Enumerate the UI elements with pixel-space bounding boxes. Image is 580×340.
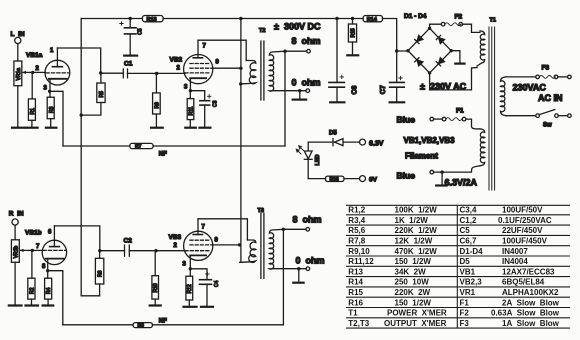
terminal AC neutral — [568, 114, 572, 118]
terminal 8ohm T3 — [306, 228, 310, 232]
node cathode VB2 — [189, 89, 192, 92]
resistor R6 — [95, 258, 103, 284]
ground R11 — [185, 127, 196, 129]
node screen VB3 B+ junction — [238, 243, 241, 246]
node L IN label — [11, 31, 25, 38]
node grid VB3 junction — [154, 249, 157, 252]
svg-text:D5: D5 — [460, 257, 471, 266]
svg-text:OUTPUT X'MER: OUTPUT X'MER — [384, 319, 447, 328]
wire node B to C2 — [100, 250, 125, 252]
wire bridge bottom to T1 secondary bottom — [430, 68, 477, 90]
svg-text:R10: R10 — [153, 283, 159, 292]
node screen B+ junction — [239, 67, 242, 70]
wire R3 to ground — [50, 119, 52, 127]
svg-text:R8: R8 — [138, 323, 145, 329]
node R5 B+ junction — [80, 113, 83, 116]
svg-text:R4: R4 — [46, 287, 52, 294]
table row R11,12 — [348, 257, 528, 266]
wire C6 top — [336, 19, 338, 83]
svg-text:VB1a: VB1a — [26, 52, 43, 59]
potentiometer VR1a — [14, 61, 22, 86]
wire R2 to ground — [31, 299, 33, 305]
node B plate VB1b junction — [98, 249, 101, 252]
transformer T1 core — [489, 27, 495, 190]
resistor R3 — [47, 97, 55, 119]
label VB1,VB2,VB3 — [404, 136, 456, 145]
svg-text:0.1UF/250VAC: 0.1UF/250VAC — [498, 216, 552, 225]
capacitor C7 — [380, 76, 404, 94]
wire R11 to ground — [189, 120, 191, 127]
resistor R2 — [28, 278, 36, 299]
tube VB2 plate — [193, 40, 202, 58]
LED indicator — [296, 142, 321, 179]
tube VB1b cathode — [46, 259, 64, 271]
svg-text:F3: F3 — [542, 65, 550, 72]
pin 2 label VB2 — [177, 66, 181, 72]
wire LED to R16 — [308, 178, 325, 180]
transformer T1 mains primary — [501, 77, 507, 116]
resistor R15 — [348, 24, 356, 42]
label NF top — [159, 152, 167, 158]
resistor R8 feedback — [133, 323, 152, 329]
table row T1 — [348, 309, 559, 318]
tube VB2 grid1 — [185, 72, 209, 74]
wiper arrow VR1b — [20, 249, 30, 252]
table row R3,4 — [348, 216, 552, 225]
label F2 — [455, 14, 463, 21]
node R IN label — [9, 211, 24, 218]
wire B+ line output tubes — [240, 19, 242, 263]
wire C7 top — [396, 51, 398, 82]
ground VR1b — [9, 304, 22, 306]
tube VB2 grid3 — [190, 63, 209, 65]
svg-text:C6,7: C6,7 — [460, 237, 477, 246]
svg-text:VR1: VR1 — [460, 288, 476, 297]
svg-text:34K 2W: 34K 2W — [395, 267, 427, 276]
svg-text:R1,2: R1,2 — [348, 206, 365, 215]
node T3 0ohm ground tap — [297, 267, 300, 270]
svg-text:± 300V DC: ± 300V DC — [274, 22, 321, 32]
node bridge bottom corner — [428, 71, 431, 74]
wire cathode to C4 — [190, 269, 207, 280]
tube VB3 grid3 — [190, 239, 209, 241]
wire C3 to ground — [204, 105, 206, 127]
wire node to R9 — [155, 73, 157, 93]
svg-text:470K 1/2W: 470K 1/2W — [395, 247, 438, 256]
svg-text:Filament: Filament — [405, 152, 438, 161]
terminal filament bottom — [430, 170, 434, 174]
label Sw — [543, 123, 552, 129]
wire wiper to VB1a grid — [32, 71, 46, 73]
resistor R12 — [186, 276, 193, 300]
potentiometer VR1b — [11, 240, 19, 262]
svg-text:F2: F2 — [460, 309, 470, 318]
ground R15 — [347, 54, 358, 56]
wire B+ top rail left — [81, 18, 142, 20]
tube VB3 plate — [193, 219, 202, 235]
pin 2 label VB1a — [36, 66, 40, 72]
wire R1 top — [31, 72, 33, 99]
svg-text:8 ohm: 8 ohm — [293, 215, 322, 225]
tube VB1a envelope — [45, 60, 70, 85]
svg-text:T1: T1 — [490, 18, 496, 24]
svg-text:R14: R14 — [367, 17, 378, 23]
svg-text:D1-D4: D1-D4 — [460, 247, 484, 256]
node T2 8ohm tap — [283, 50, 286, 53]
wire C4 to ground — [206, 284, 208, 306]
wire F1 to filament winding — [466, 119, 480, 129]
svg-text:T2: T2 — [259, 28, 265, 34]
label Blue bottom — [397, 171, 416, 181]
svg-text:T1: T1 — [348, 309, 358, 318]
label F1 — [456, 108, 464, 115]
tube VB1b label — [25, 230, 42, 237]
node A plate VB1a junction — [99, 71, 102, 74]
tube VB3 grid2 screen — [190, 244, 213, 246]
ground R10 — [150, 304, 161, 306]
terminal 6.3V — [360, 139, 366, 145]
fuse F3 — [536, 75, 558, 79]
ground R2 — [26, 304, 39, 306]
transformer T2 label — [259, 28, 265, 34]
ground VR1a — [12, 127, 25, 129]
tube VB1b grid — [43, 249, 66, 251]
wire node B to R6 — [99, 251, 101, 259]
wire T1 primary top to F3 — [506, 76, 536, 78]
label 0 ohm bottom — [296, 256, 325, 266]
wire cathode to R3 — [49, 91, 51, 97]
svg-text:F1: F1 — [456, 108, 464, 115]
wire node A to C1 — [101, 72, 124, 74]
wiper arrow VR1a — [22, 71, 32, 74]
svg-text:R1: R1 — [30, 108, 36, 115]
wire filament tap to ground — [441, 172, 443, 185]
svg-text:1K 1/2W: 1K 1/2W — [395, 216, 429, 225]
ground R4 — [43, 304, 54, 306]
wire C2 to grid VB3 — [129, 250, 185, 252]
node C6 rail — [335, 17, 338, 20]
terminal 0ohm T3 — [306, 267, 310, 271]
ground R3 — [46, 127, 57, 129]
svg-text:6.3V: 6.3V — [369, 141, 384, 148]
tube VB1b envelope — [42, 240, 66, 264]
wire R10 to ground — [154, 299, 156, 305]
svg-text:R7: R7 — [135, 144, 142, 150]
wire R16 to 0V terminal — [344, 178, 360, 180]
wire switch to AC terminal — [558, 115, 567, 117]
transformer T2 core — [261, 41, 264, 100]
svg-text:220K 1/2W: 220K 1/2W — [395, 226, 438, 235]
ground filament — [436, 184, 446, 186]
svg-text:C1,2: C1,2 — [460, 216, 477, 225]
resistor R13 — [142, 16, 163, 24]
svg-text:IN4004: IN4004 — [502, 257, 528, 266]
pin 9 label VB2 — [216, 60, 220, 66]
node C5 rail — [129, 17, 132, 20]
svg-text:C5: C5 — [460, 226, 471, 235]
wire R5 bottom to B+ preamp line — [81, 103, 101, 116]
ground C5 — [124, 54, 137, 56]
pin 7 label VB2 — [203, 44, 207, 50]
svg-text:R12: R12 — [187, 284, 193, 293]
svg-text:12AX7/ECC83: 12AX7/ECC83 — [502, 267, 555, 276]
pin 3 label VB3 — [183, 262, 187, 268]
node bridge left corner — [406, 49, 409, 52]
label 6.3V/2A — [445, 178, 478, 188]
tube VB1a cathode — [49, 79, 67, 92]
ground C7 — [390, 101, 405, 103]
table row R5,6 — [348, 226, 543, 235]
diode D5 — [308, 139, 359, 146]
wire to fuse F1 — [434, 118, 443, 120]
table frame lines — [346, 205, 570, 328]
label 8 ohm bottom — [293, 215, 322, 225]
svg-text:C4: C4 — [214, 280, 220, 287]
svg-text:230VAC: 230VAC — [513, 83, 547, 93]
wire 0ohm T2 — [272, 90, 306, 92]
transformer T2 secondary — [269, 51, 285, 91]
svg-text:VB1b: VB1b — [25, 230, 42, 237]
svg-text:VB3: VB3 — [169, 234, 182, 241]
svg-text:VR1a: VR1a — [16, 68, 22, 81]
svg-text:F2: F2 — [455, 14, 463, 21]
wire C1 to grid VB2 — [128, 72, 186, 74]
capacitor C5 — [120, 22, 144, 35]
capacitor C3 — [200, 95, 219, 107]
svg-text:100UF/50V: 100UF/50V — [502, 206, 543, 215]
table row R13 — [348, 267, 555, 276]
node cathode VB1a — [48, 90, 51, 93]
svg-text:C7: C7 — [380, 85, 387, 94]
svg-text:1A Slow Blow: 1A Slow Blow — [502, 319, 560, 328]
tube VB3 grid1 — [185, 250, 209, 252]
wire C7 to ground — [396, 87, 398, 101]
resistor R14 — [363, 16, 382, 24]
ground R9 — [151, 127, 163, 129]
label Filament — [405, 152, 438, 161]
svg-text:T2,T3: T2,T3 — [348, 319, 369, 328]
diode D4 bottom-right — [436, 58, 444, 66]
svg-text:0.63A Slow Blow: 0.63A Slow Blow — [491, 309, 560, 318]
wire node A to R5 — [100, 73, 102, 83]
tube VB3 envelope — [184, 231, 213, 260]
svg-text:250 10W: 250 10W — [395, 278, 430, 287]
node bridge top corner — [428, 27, 431, 30]
wire screen VB3 to B+ — [213, 244, 240, 246]
wire bridge right to ground — [451, 51, 460, 63]
label D1 - D4 — [404, 13, 427, 20]
fuse F2 — [430, 22, 463, 28]
wire NF tap T2 — [284, 51, 286, 146]
svg-text:VR1b: VR1b — [13, 246, 19, 259]
tube VB1a grid — [46, 72, 69, 74]
svg-text:2A Slow Blow: 2A Slow Blow — [502, 298, 560, 307]
label 230VAC — [513, 83, 547, 93]
label Blue top — [397, 115, 416, 125]
transformer T2 primary — [241, 61, 256, 84]
tube VB1a plate — [52, 48, 62, 67]
wire NF tap T3 — [282, 229, 284, 324]
wire VR1a to ground — [17, 86, 19, 127]
svg-text:VB2,3: VB2,3 — [460, 278, 483, 287]
wire R9 to ground — [155, 114, 157, 127]
svg-text:R9,10: R9,10 — [348, 247, 370, 256]
svg-text:R3,4: R3,4 — [348, 216, 365, 225]
svg-text:IN4007: IN4007 — [502, 247, 528, 256]
svg-text:0 ohm: 0 ohm — [292, 78, 321, 88]
svg-text:R3: R3 — [49, 106, 55, 113]
ground bridge — [455, 62, 464, 64]
label D5 — [329, 131, 337, 137]
svg-text:R IN: R IN — [9, 211, 24, 218]
table row R16 — [348, 298, 559, 307]
wire R15 top — [352, 19, 354, 25]
svg-text:150 1/2W: 150 1/2W — [395, 257, 432, 266]
resistor R5 — [97, 83, 105, 103]
wire cathode VB1a to NF line — [50, 91, 63, 146]
switch SW — [536, 110, 559, 118]
diode D3 top-right — [436, 35, 444, 43]
table row T2,T3 — [348, 319, 559, 328]
label +230V AC — [420, 82, 467, 92]
transformer T1 HV secondary — [477, 31, 485, 66]
fuse F1 — [442, 117, 466, 121]
node R15 rail — [351, 17, 354, 20]
node grid VB2 junction — [155, 72, 158, 75]
svg-text:VB1: VB1 — [460, 267, 476, 276]
svg-text:100UF/450V: 100UF/450V — [502, 237, 548, 246]
terminal AC line — [568, 75, 572, 79]
pin 7 label VB3 — [202, 225, 206, 231]
wire VR1b to ground — [14, 262, 16, 304]
tube VB3 label — [169, 234, 182, 241]
svg-text:NF: NF — [159, 318, 167, 324]
tube VB3 cathode — [190, 255, 206, 268]
wire plate VB1a to node A — [57, 48, 100, 73]
input jack R — [12, 219, 18, 225]
svg-text:R2: R2 — [30, 287, 36, 294]
svg-text:F1: F1 — [460, 298, 470, 307]
ground C3 — [200, 127, 211, 129]
wire jack to VR1a — [17, 44, 19, 61]
svg-text:0 ohm: 0 ohm — [296, 256, 325, 266]
wire F2 to T1 secondary — [463, 24, 481, 32]
svg-text:VB1,VB2,VB3: VB1,VB2,VB3 — [404, 136, 456, 145]
wire R15 to ground — [352, 42, 354, 55]
table row R14 — [348, 278, 544, 287]
pin 8 label VB1b — [42, 264, 46, 270]
label NF bottom — [159, 318, 167, 324]
diode bridge D1-D4 edges — [408, 28, 451, 73]
ground T2 secondary — [293, 98, 306, 100]
label 0V — [369, 177, 378, 184]
diode D2 bottom-left — [415, 58, 423, 66]
terminal 0V — [360, 176, 366, 182]
wire jack to VR1b — [14, 225, 16, 240]
wire 0ohm T3 — [272, 268, 306, 270]
node filament ground tap — [440, 170, 443, 173]
wire cathode to R11 — [189, 91, 191, 99]
node C7 junction — [395, 49, 398, 52]
wire wiper to VB1b grid — [29, 249, 43, 251]
wire R6 bottom to B+ preamp line — [99, 284, 101, 296]
node cathode VB1b — [46, 269, 49, 272]
svg-text:0V: 0V — [369, 177, 378, 184]
svg-text:POWER X'MER: POWER X'MER — [387, 309, 447, 318]
table row R1,2 — [348, 206, 543, 215]
svg-text:R14: R14 — [348, 278, 363, 287]
node bridge right corner — [450, 49, 453, 52]
svg-text:NF: NF — [159, 152, 167, 158]
wire plate VB3 to T3 primary — [198, 219, 247, 240]
transformer T3 label — [258, 208, 264, 214]
ground R12 — [184, 306, 197, 308]
wire C5 top — [129, 19, 131, 28]
resistor R4 — [45, 278, 53, 299]
tube VB1b plate — [50, 226, 60, 247]
svg-text:R13: R13 — [147, 17, 157, 23]
svg-text:VB2: VB2 — [170, 57, 183, 64]
svg-text:R5: R5 — [99, 91, 105, 98]
table divider — [456, 205, 458, 328]
svg-text:C3: C3 — [213, 100, 219, 107]
tube VB2 envelope — [184, 55, 213, 84]
wire T2 0ohm to ground — [299, 91, 301, 99]
pin 6 label VB1b — [48, 230, 52, 236]
svg-text:220K 2W: 220K 2W — [395, 288, 431, 297]
svg-text:F3: F3 — [460, 319, 470, 328]
svg-text:Sw: Sw — [543, 123, 552, 129]
ground C4 — [201, 306, 213, 308]
svg-text:150 1/2W: 150 1/2W — [395, 298, 432, 307]
wire B+ preamp feed line — [81, 19, 99, 296]
table row R7,8 — [348, 237, 547, 246]
node T2 0ohm ground tap — [298, 89, 301, 92]
node B+ output rail — [239, 17, 242, 20]
svg-text:6BQ5/EL84: 6BQ5/EL84 — [502, 278, 545, 287]
label AC IN — [538, 93, 563, 103]
svg-text:R15: R15 — [351, 28, 357, 37]
svg-text:Blue: Blue — [397, 115, 416, 125]
svg-text:R9: R9 — [154, 102, 160, 109]
wire 8ohm stub T2 — [285, 50, 307, 52]
resistor R10 — [152, 276, 159, 299]
label F3 — [542, 65, 550, 72]
resistor R7 feedback — [130, 143, 153, 150]
svg-text:8 ohm: 8 ohm — [292, 36, 321, 46]
node cathode VB3 — [189, 267, 192, 270]
wire T3 0ohm to ground — [298, 269, 300, 282]
table row R15 — [348, 288, 559, 297]
svg-text:C5: C5 — [138, 28, 144, 35]
node T2 primary B+ — [239, 82, 242, 85]
resistor R11 — [187, 99, 194, 120]
svg-text:LED: LED — [315, 154, 321, 165]
transformer T3 core — [261, 213, 264, 278]
wire cathode to R4 — [47, 271, 49, 279]
transformer T1 label — [490, 18, 496, 24]
svg-text:6.3V/2A: 6.3V/2A — [445, 178, 478, 188]
tube VB2 grid2 screen — [190, 67, 213, 69]
wire R1 to ground — [31, 120, 33, 127]
ground T3 secondary — [293, 282, 303, 284]
node junction grid VB1b — [31, 249, 34, 252]
wire plate VB2 to T2 primary — [198, 40, 246, 60]
terminal 0ohm T2 — [306, 89, 310, 93]
pin 9 label VB3 — [215, 238, 219, 244]
tube VB2 cathode — [190, 78, 206, 91]
svg-text:100K 1/2W: 100K 1/2W — [395, 206, 438, 215]
